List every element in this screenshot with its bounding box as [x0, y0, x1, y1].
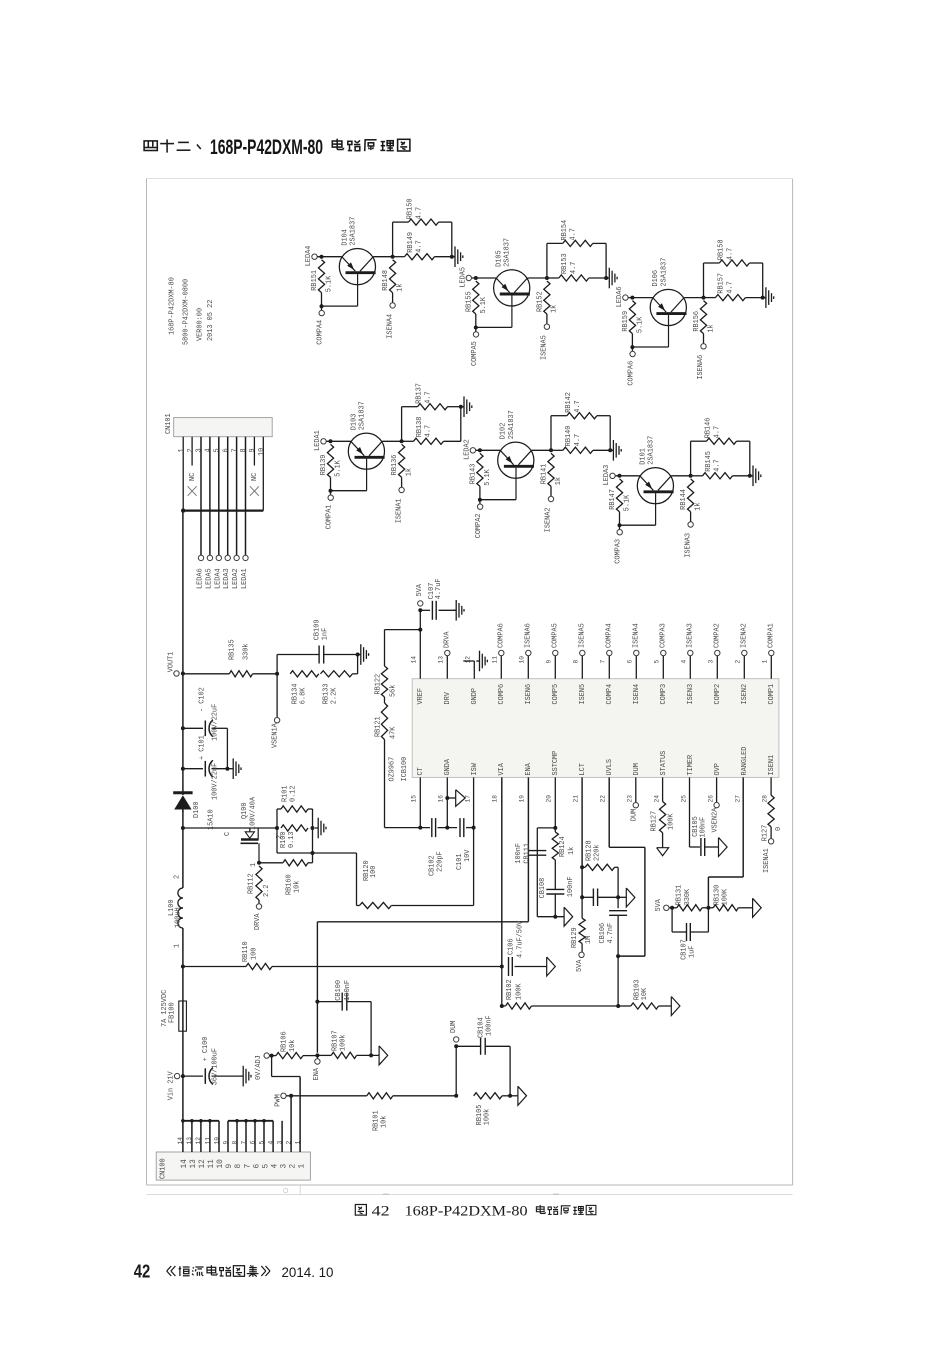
transistor D103 2SA1837 (2SA1837 PNP) — [348, 401, 384, 490]
node junction DUM lower — [454, 1094, 458, 1098]
svg-text:7: 7 — [240, 1141, 247, 1145]
capacitor CB105 100nF — [692, 816, 718, 856]
resistor RB101 10k — [367, 1093, 456, 1131]
svg-text:8: 8 — [235, 1164, 243, 1169]
wire emitter rail D106 — [628, 297, 703, 299]
terminal ISENA5 — [541, 324, 550, 360]
terminal DRVA — [444, 631, 452, 656]
svg-text:4.7: 4.7 — [726, 248, 734, 260]
svg-text:47K: 47K — [389, 726, 397, 739]
pin 3 of CN100 — [276, 1121, 288, 1169]
svg-text:4.7: 4.7 — [574, 400, 582, 412]
svg-text:COMP6: COMP6 — [498, 684, 506, 705]
pin 4 of CN101 — [205, 437, 213, 555]
ground at GNDP pin12 — [476, 651, 487, 672]
op-amp U100 ICB100 OZ9967 controller box — [388, 679, 779, 782]
connector CN100 — [156, 1152, 310, 1180]
svg-text:5.1K: 5.1K — [480, 296, 488, 313]
pin 2 of CN101 — [187, 437, 197, 496]
svg-text:COMPA1: COMPA1 — [326, 504, 334, 529]
resistor RB128 220k — [582, 840, 618, 897]
resistor RB144 1k — [680, 479, 702, 522]
flag arrow at LCT — [626, 888, 635, 907]
pin16 GNDA stub down — [445, 777, 449, 829]
node junction LEDA6 — [630, 296, 634, 300]
svg-text:100nF: 100nF — [485, 1015, 493, 1036]
node junction RB145 ground — [748, 474, 752, 478]
svg-text:15: 15 — [410, 795, 417, 803]
svg-text:COMPA3: COMPA3 — [615, 539, 623, 564]
svg-text:COMPA4: COMPA4 — [317, 320, 325, 345]
svg-text:RB154: RB154 — [561, 220, 569, 241]
svg-text:COMPA5: COMPA5 — [471, 341, 479, 366]
svg-text:56k: 56k — [389, 685, 397, 697]
svg-text:10k: 10k — [289, 1040, 297, 1052]
node junction COMPA4 — [320, 304, 324, 308]
svg-text:VSEN1A: VSEN1A — [271, 722, 279, 748]
svg-text:RB144: RB144 — [680, 489, 688, 510]
pin15 CT stub down — [418, 777, 422, 829]
terminal LEDA5 — [459, 267, 471, 288]
svg-text:4.7: 4.7 — [570, 228, 578, 240]
svg-text:LEDA3: LEDA3 — [223, 568, 231, 589]
svg-text:0: 0 — [775, 827, 783, 831]
terminal COMPA2 — [475, 500, 483, 539]
svg-text:RB139: RB139 — [320, 455, 328, 476]
terminal LEDA5 — [205, 555, 213, 589]
svg-text:R127: R127 — [762, 825, 770, 842]
node junction ENA terminal — [315, 1053, 319, 1057]
pin 12 of CN100 — [195, 1121, 207, 1169]
pin21 LCT stub down — [580, 777, 584, 899]
svg-text:2SA1837: 2SA1837 — [504, 238, 512, 267]
node junction bus to RB110 — [181, 965, 185, 969]
svg-text:4: 4 — [267, 1141, 274, 1145]
node junction RB157 ground — [761, 296, 765, 300]
svg-text:R101: R101 — [281, 785, 289, 802]
svg-text:5.1K: 5.1K — [484, 468, 492, 485]
svg-text:4.7: 4.7 — [415, 207, 423, 219]
svg-text:5: 5 — [654, 660, 661, 664]
pin 11 of CN100 — [204, 1121, 216, 1169]
svg-text:LEDA6: LEDA6 — [197, 568, 205, 589]
capacitor CB104 100nF — [456, 1015, 510, 1095]
pin22 UVLS wire down — [609, 777, 645, 956]
svg-text:RB130: RB130 — [713, 885, 721, 906]
svg-text:COMPA6: COMPA6 — [627, 361, 635, 386]
terminal 5VA at RB131 — [655, 898, 669, 911]
terminal COMPA3 — [660, 623, 668, 656]
svg-text:ENA: ENA — [313, 1067, 321, 1080]
svg-text:DUM: DUM — [630, 809, 638, 821]
svg-text:15A10: 15A10 — [208, 809, 216, 830]
svg-text:LEDA2: LEDA2 — [232, 568, 240, 589]
svg-text:1: 1 — [173, 944, 181, 948]
node junction CN101 rail to VOUT bus — [181, 508, 185, 512]
terminal COMPA5 — [471, 328, 479, 367]
svg-text:ICB100: ICB100 — [401, 757, 409, 782]
svg-text:RB150: RB150 — [407, 199, 415, 220]
svg-text:6: 6 — [253, 1164, 261, 1169]
svg-text:100k: 100k — [339, 1034, 347, 1051]
svg-text:CB100: CB100 — [335, 980, 343, 1001]
svg-text:COMP5: COMP5 — [552, 684, 560, 705]
svg-text:1nF: 1nF — [321, 628, 329, 640]
pin 22 UVLS of U100 — [599, 759, 614, 803]
svg-text:COMPA2: COMPA2 — [475, 513, 483, 538]
node junction RB137 ground — [459, 405, 463, 409]
terminal 0V/ADJ — [255, 1053, 269, 1080]
svg-text:LEDA5: LEDA5 — [205, 568, 213, 589]
node collector junction D106 — [702, 296, 706, 300]
resistor RB145 4.7 (lower branch) — [691, 451, 750, 479]
capacitor CB111 100nF (left branch) — [515, 828, 555, 917]
svg-text:16: 16 — [437, 795, 444, 803]
node junction RB105/CB104 — [508, 1094, 512, 1098]
svg-text:ISENA4: ISENA4 — [633, 623, 641, 648]
svg-text:PWM: PWM — [274, 1094, 282, 1106]
connector CN101 — [165, 413, 272, 436]
svg-text:2013 05 22: 2013 05 22 — [207, 300, 215, 341]
resistor RB146 4.7 (upper branch) — [691, 418, 750, 476]
svg-text:- C102: - C102 — [198, 687, 206, 712]
svg-text:10: 10 — [258, 448, 266, 456]
svg-text:5: 5 — [258, 1141, 265, 1145]
svg-text:1: 1 — [178, 448, 186, 452]
svg-text:4.7: 4.7 — [714, 459, 722, 471]
svg-text:VIA: VIA — [498, 762, 506, 775]
pin 23 DUM of U100 — [626, 763, 641, 802]
capacitor CB107 1uF — [672, 908, 708, 960]
node junction COMPA6 — [630, 345, 634, 349]
svg-text:CB107: CB107 — [680, 939, 688, 960]
node junction ENA/CB100 — [315, 1000, 319, 1004]
svg-text:4.7: 4.7 — [713, 426, 721, 438]
node junction COMPA1 — [329, 489, 333, 493]
svg-text:2: 2 — [735, 660, 742, 664]
svg-text:ISEN2: ISEN2 — [741, 684, 749, 705]
wire LCT node to flag — [618, 896, 626, 898]
pin 3 COMP2 of U100 — [708, 656, 723, 705]
svg-text:RB149: RB149 — [407, 232, 415, 253]
svg-text:ISENA2: ISENA2 — [545, 507, 553, 532]
svg-text:D100: D100 — [193, 801, 201, 818]
svg-text:Q100: Q100 — [241, 802, 249, 819]
resistor RB152 1k — [537, 281, 559, 324]
svg-text:5.1K: 5.1K — [335, 459, 343, 476]
pin 7 of CN101 — [231, 437, 239, 555]
pin 14 VREF of U100 — [411, 609, 426, 704]
node junction CB109 ground — [356, 653, 360, 657]
wire from drain node down to ISW sense path — [277, 828, 313, 863]
svg-text:D101: D101 — [639, 448, 647, 465]
resistor RB107 100k — [317, 1030, 379, 1058]
wire drain rail y=828 — [183, 827, 277, 829]
svg-text:100: 100 — [370, 866, 378, 878]
svg-text:4.7nF: 4.7nF — [607, 923, 615, 944]
terminal DRVA (gate drive) — [254, 904, 262, 930]
resistor RB137 4.7 (upper branch) — [402, 383, 461, 441]
wire emitter rail D105 — [472, 277, 547, 279]
svg-text:6: 6 — [249, 1141, 256, 1145]
svg-text:13: 13 — [190, 1159, 198, 1169]
pin 27 RANGLED of U100 — [734, 747, 749, 803]
ground for D103 — [461, 396, 472, 417]
pin 1 of CN101 — [178, 437, 186, 511]
svg-text:RB128: RB128 — [585, 840, 593, 861]
svg-text:4.7: 4.7 — [416, 240, 424, 252]
capacitor C102 100V/22uF polarized — [181, 687, 228, 769]
pin 2 ISEN2 of U100 — [735, 656, 750, 705]
terminal COMPA4 — [606, 623, 614, 656]
svg-text:7: 7 — [244, 1164, 252, 1169]
page title: 四十二、168P-P42DXM-80 电路原理图 — [144, 136, 410, 159]
svg-text:ISENA3: ISENA3 — [687, 623, 695, 648]
terminal ISENA5 — [579, 623, 587, 656]
pin 15 CT of U100 — [410, 767, 425, 802]
capacitor C101 100V/22uF polarized — [181, 735, 230, 800]
svg-text:2.2: 2.2 — [263, 885, 271, 897]
pin 5 of CN100 — [258, 1121, 270, 1169]
svg-text:2SA1837: 2SA1837 — [660, 258, 668, 287]
pin 1 COMP1 of U100 — [762, 656, 777, 705]
terminal Vin 21V — [167, 1070, 179, 1100]
wire base lead D101 — [620, 524, 656, 526]
pin 16 GNDA of U100 — [437, 758, 452, 802]
svg-text:5: 5 — [262, 1164, 270, 1169]
node junction 5VA/C107 — [418, 608, 422, 612]
wire CN101 output rail (thick) — [183, 509, 263, 511]
svg-text:LEDA2: LEDA2 — [463, 439, 471, 460]
resistor RB148 1k — [382, 260, 404, 303]
svg-text:DRV: DRV — [444, 691, 452, 704]
svg-text:25: 25 — [680, 795, 687, 803]
node junction RB153 ground — [604, 276, 608, 280]
svg-text:13: 13 — [186, 1137, 193, 1145]
svg-text:CB102: CB102 — [428, 855, 436, 876]
terminal 5VA at RB129 — [576, 952, 584, 972]
svg-text:42: 42 — [372, 1203, 390, 1219]
terminal COMPA6 — [498, 623, 506, 656]
pin26 OVP stub — [716, 777, 718, 802]
pin 2 of CN100 — [285, 1096, 297, 1169]
resistor RB110 100 on VIA wire — [183, 941, 502, 969]
svg-text:GNDP: GNDP — [471, 688, 479, 705]
ground at C107 — [453, 600, 464, 621]
svg-text:8: 8 — [240, 448, 248, 452]
svg-text:RB137: RB137 — [416, 383, 424, 404]
pin 10 ISEN6 of U100 — [519, 656, 534, 705]
terminal ISENA4 — [386, 303, 395, 339]
wire ISW sense to RB120 — [313, 853, 357, 906]
svg-text:10: 10 — [519, 656, 526, 664]
svg-text:LEDA6: LEDA6 — [616, 287, 624, 308]
resistor R100 0.13 (lower branch) — [280, 825, 308, 848]
resistor RB131 330K — [669, 885, 708, 911]
pin 14 of CN100 — [177, 1121, 189, 1169]
svg-text:D103: D103 — [350, 414, 358, 431]
resistor RB157 4.7 (lower branch) — [704, 273, 763, 301]
pin 4 of CN100 — [267, 1121, 279, 1169]
svg-text:RB112: RB112 — [248, 873, 256, 894]
pin 9 of CN100 — [222, 1121, 234, 1169]
terminal LEDA2 — [232, 555, 240, 589]
svg-text:100nF: 100nF — [344, 980, 352, 1001]
svg-text:12: 12 — [195, 1137, 202, 1145]
flag arrow at RB107 — [379, 1046, 388, 1065]
wire base lead D104 — [322, 305, 358, 307]
resistor RB158 4.7 (upper branch) — [704, 239, 763, 297]
ground at R100/R101 — [315, 818, 326, 839]
svg-text:ISW: ISW — [471, 762, 479, 775]
svg-text:COMPA1: COMPA1 — [768, 623, 776, 648]
svg-text:10: 10 — [213, 1137, 220, 1145]
svg-text:220k: 220k — [593, 844, 601, 861]
capacitor C107 4.7uF — [420, 579, 456, 620]
svg-text:LEDA5: LEDA5 — [459, 267, 467, 288]
pin 13 of CN100 — [186, 1121, 198, 1169]
terminal PWM — [274, 1093, 291, 1107]
ground for D106 — [763, 287, 774, 308]
svg-text:RB110: RB110 — [242, 941, 250, 962]
resistor RB138 4.7 (lower branch) — [402, 417, 461, 445]
terminal LEDA2 — [463, 439, 475, 460]
transistor D101 2SA1837 (2SA1837 PNP) — [637, 436, 673, 525]
capacitor CB106 4.7nF — [599, 897, 627, 956]
svg-text:6.8K: 6.8K — [299, 687, 307, 704]
node junction DUM/CB104 — [454, 1044, 458, 1048]
resistor RB120 100 — [357, 860, 474, 908]
svg-text:220pF: 220pF — [436, 851, 444, 872]
pin 13 DRV of U100 — [438, 656, 453, 705]
node junction RB131/RB130/RANGLED — [706, 906, 710, 910]
terminal ISENA3 — [684, 522, 693, 558]
node junction LEDA5 — [474, 276, 478, 280]
terminal COMPA3 — [615, 525, 623, 564]
resistor RB129 1M — [571, 897, 593, 952]
capacitor C101b 10V — [456, 818, 474, 870]
pin19 ENA stub down — [527, 777, 529, 921]
terminal COMPA5 — [552, 623, 560, 656]
svg-text:4: 4 — [205, 448, 213, 452]
terminal LEDA3 — [223, 555, 231, 589]
svg-text:12: 12 — [199, 1159, 207, 1169]
svg-text:RB136: RB136 — [391, 455, 399, 476]
svg-text:4.7: 4.7 — [424, 391, 432, 403]
terminal 5VA at VREF — [416, 583, 424, 606]
wire UVLS node down to RB102/RB103 junction — [617, 956, 619, 1006]
ground for D102 — [610, 440, 621, 461]
terminal COMPA4 — [317, 306, 325, 345]
wire VREF to RB122 chain — [385, 630, 421, 666]
terminal ISENA3 — [687, 623, 695, 656]
svg-text:8: 8 — [231, 1141, 238, 1145]
svg-text:4.7: 4.7 — [727, 281, 735, 293]
svg-text:CB109: CB109 — [313, 620, 321, 641]
node junction 5VA/CB107 — [670, 906, 674, 910]
resistor RB149 4.7 (lower branch) — [393, 232, 452, 260]
terminal VSEN2A — [711, 802, 719, 832]
svg-text:NC: NC — [251, 473, 259, 481]
pin 18 VIA of U100 — [491, 762, 506, 802]
node collector junction D104 — [391, 255, 395, 259]
terminal VOUT1 — [168, 652, 180, 677]
schematic frame border — [147, 179, 793, 1195]
pin 26 OVP of U100 — [707, 763, 722, 802]
svg-text:14: 14 — [177, 1137, 184, 1145]
node junction ISW wire — [311, 851, 315, 855]
resistor RB153 4.7 (lower branch) — [547, 253, 606, 281]
resistor RB136 1k — [391, 444, 413, 487]
svg-text:D105: D105 — [496, 250, 504, 267]
pin 21 LCT of U100 — [572, 763, 587, 802]
svg-text:NC: NC — [189, 473, 197, 481]
pin20 SSTCMP stub down — [553, 777, 557, 832]
svg-text:ISENA1: ISENA1 — [763, 848, 771, 873]
ground at C100 — [240, 1066, 251, 1087]
pin 24 STATUS of U100 — [653, 751, 668, 803]
svg-text:24: 24 — [653, 795, 660, 803]
svg-text:5.1K: 5.1K — [637, 316, 645, 333]
svg-text:100uH: 100uH — [175, 907, 183, 928]
terminal ENA — [313, 1055, 321, 1080]
svg-text:21: 21 — [572, 795, 579, 803]
svg-text:CN100: CN100 — [159, 1158, 167, 1179]
capacitor C100 36V/100uF polarized — [183, 1037, 240, 1086]
node junction SSTCMP flag — [553, 915, 557, 919]
svg-text:RB152: RB152 — [537, 291, 545, 312]
svg-text:4.7: 4.7 — [570, 262, 578, 274]
svg-text:1: 1 — [250, 863, 258, 867]
node junction LEDA3 — [618, 474, 622, 478]
transistor D105 2SA1837 (2SA1837 PNP) — [494, 238, 530, 327]
svg-text:VREF: VREF — [417, 688, 425, 705]
svg-text:DUM: DUM — [633, 763, 641, 775]
svg-text:2: 2 — [289, 1164, 297, 1169]
node junction LEDA2 — [478, 448, 482, 452]
svg-text:OVP: OVP — [714, 763, 722, 775]
terminal ISENA2 — [741, 623, 749, 656]
svg-text:LCT: LCT — [579, 763, 587, 775]
terminal DUM (lower) — [450, 1021, 459, 1096]
svg-text:4.7: 4.7 — [425, 425, 433, 437]
svg-text:1: 1 — [762, 660, 769, 664]
node junction bus to Q100 drain — [181, 826, 185, 830]
svg-text:COMP4: COMP4 — [606, 684, 614, 705]
svg-text:9: 9 — [222, 1141, 229, 1145]
resistor R101 0.12 (upper branch) — [277, 785, 313, 828]
pin 11 COMP6 of U100 — [492, 656, 507, 705]
pin 28 ISEN1 of U100 — [761, 755, 776, 803]
svg-text:19: 19 — [518, 795, 525, 803]
svg-text:5VA: 5VA — [655, 898, 663, 911]
pin 20 SSTCMP of U100 — [545, 751, 560, 803]
svg-text:330k: 330k — [242, 643, 250, 660]
ground at C101 — [230, 758, 241, 779]
svg-text:RB102: RB102 — [506, 979, 514, 1000]
svg-text:ISEN1: ISEN1 — [768, 755, 776, 776]
pin 17 ISW of U100 — [464, 762, 479, 802]
svg-text:CT: CT — [417, 767, 425, 775]
svg-text:4.7uF/50V: 4.7uF/50V — [516, 920, 524, 958]
svg-text:RB122: RB122 — [374, 674, 382, 695]
svg-text:2014. 10: 2014. 10 — [282, 1265, 334, 1280]
svg-text:RB107: RB107 — [331, 1030, 339, 1051]
svg-text:+ C101: + C101 — [198, 735, 206, 760]
svg-text:RB143: RB143 — [470, 464, 478, 485]
svg-text:ISENA6: ISENA6 — [525, 623, 533, 648]
svg-text:100K: 100K — [667, 813, 675, 830]
